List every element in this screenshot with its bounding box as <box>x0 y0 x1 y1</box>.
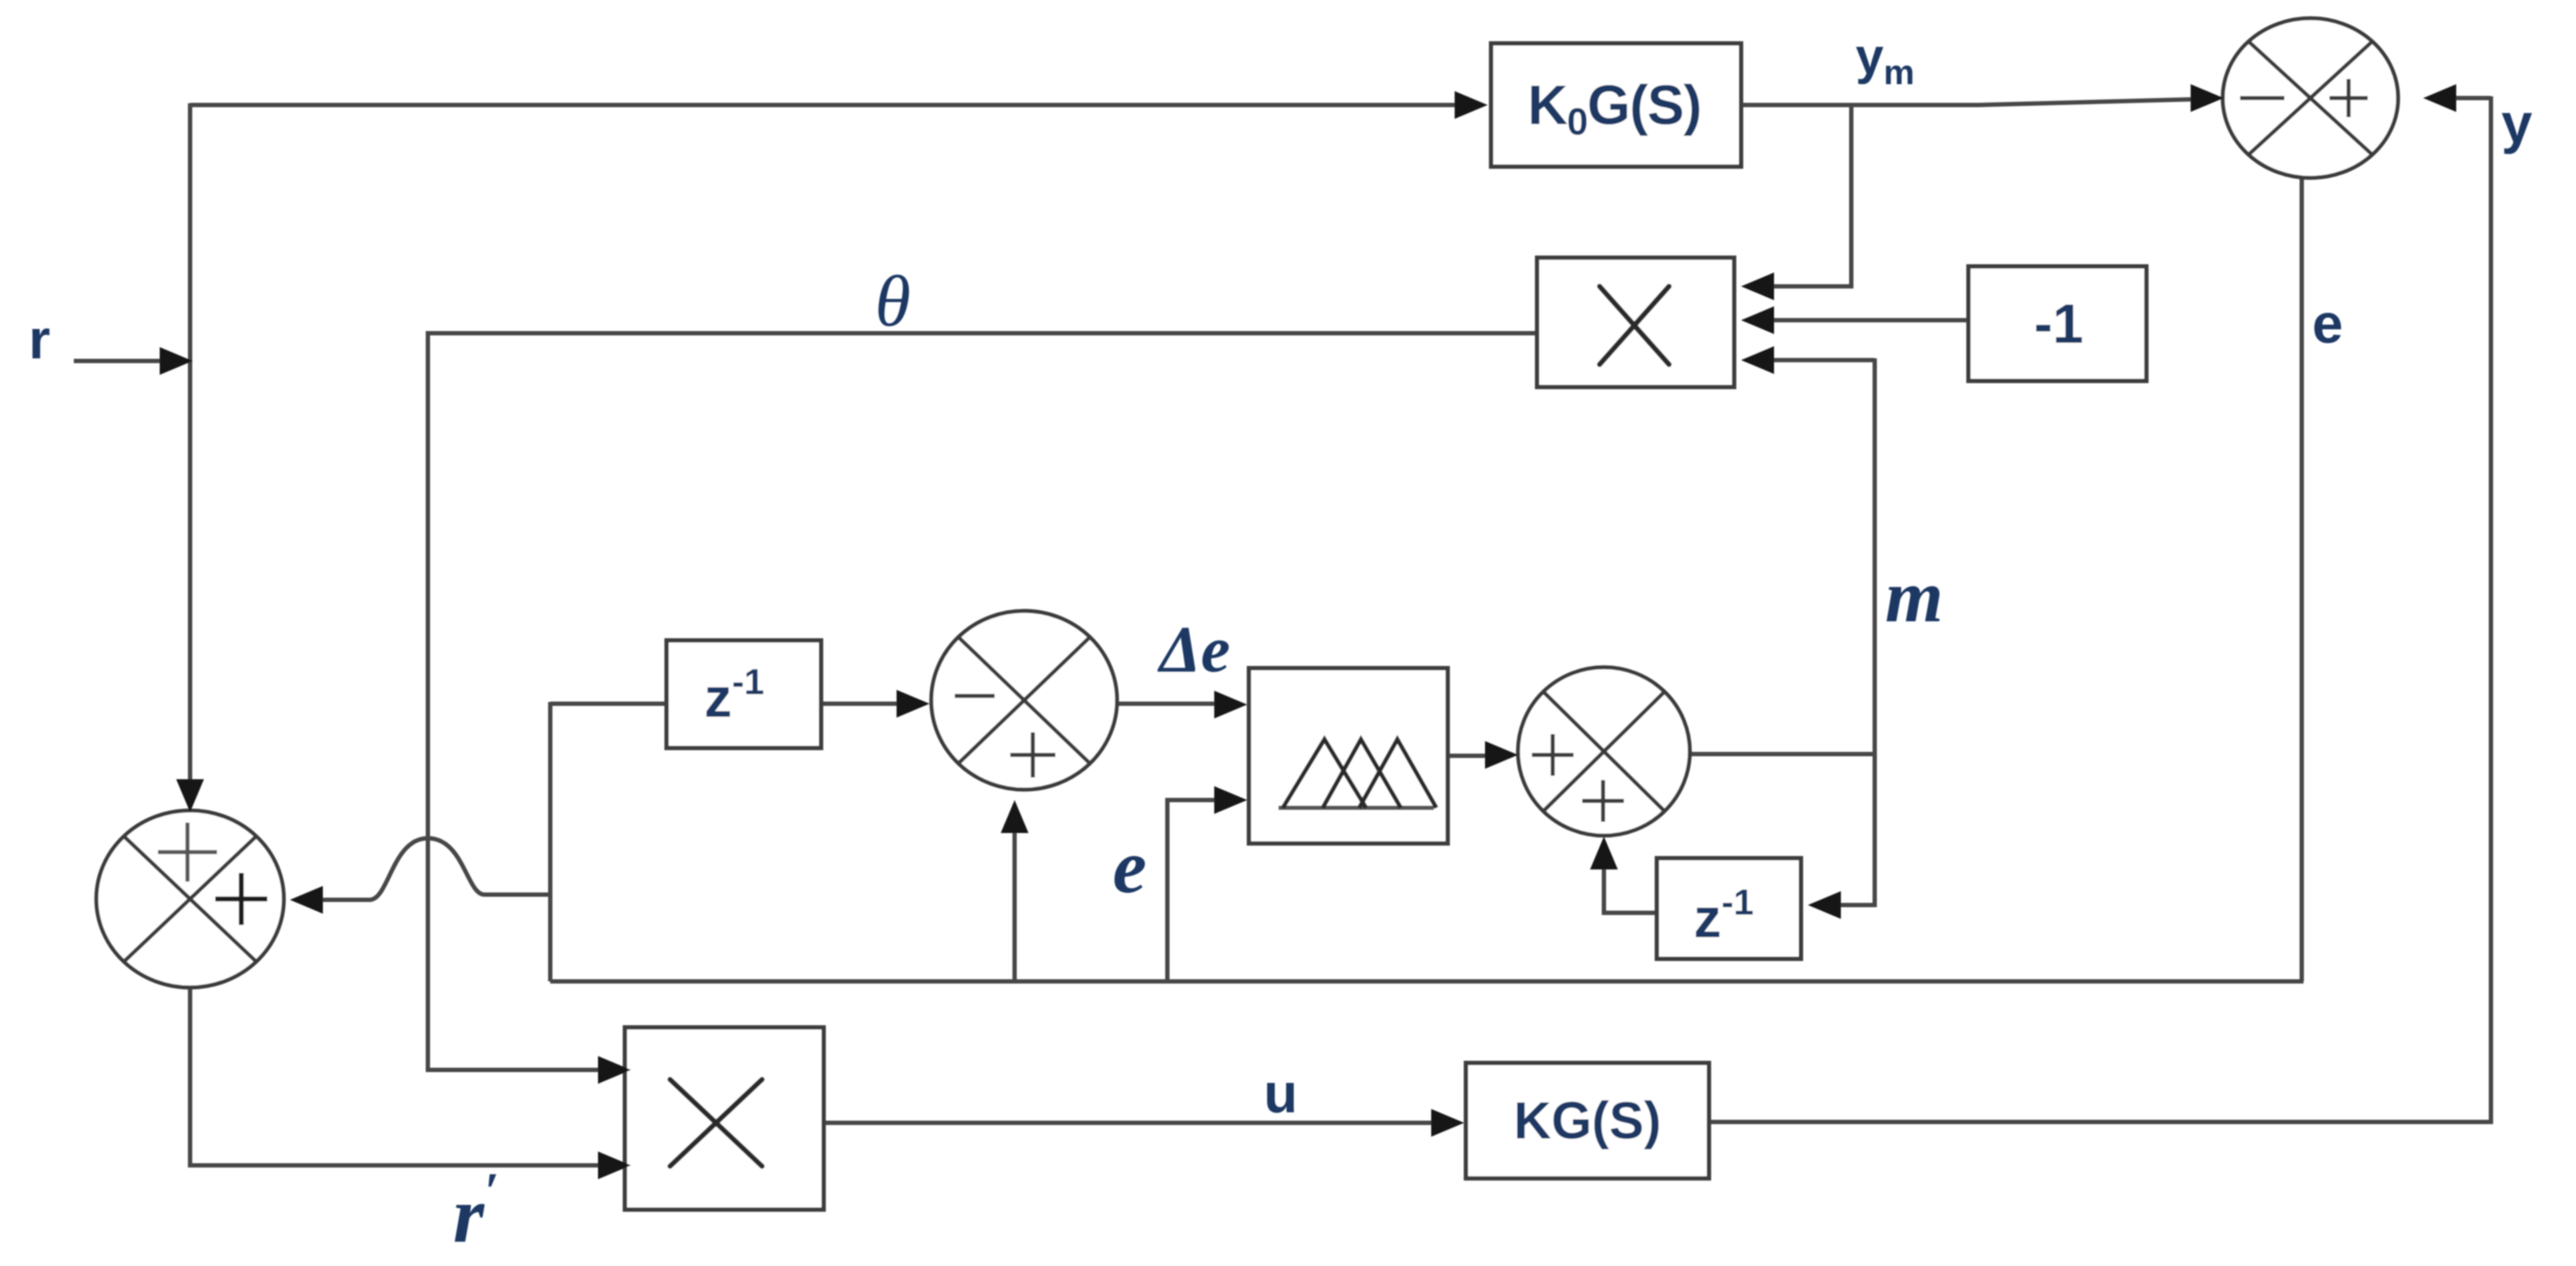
svg-text:Δe: Δe <box>1157 613 1230 686</box>
svg-text:θ: θ <box>875 261 910 342</box>
svg-text:y: y <box>2501 92 2533 154</box>
svg-text:e: e <box>2312 292 2343 355</box>
svg-text:K0G(S): K0G(S) <box>1528 74 1701 143</box>
svg-text:m: m <box>1885 554 1943 638</box>
svg-text:KG(S): KG(S) <box>1514 1092 1661 1150</box>
svg-text:u: u <box>1264 1062 1298 1125</box>
svg-text:r: r <box>29 308 50 371</box>
svg-text:e: e <box>1113 825 1147 909</box>
svg-text:-1: -1 <box>2034 292 2084 355</box>
